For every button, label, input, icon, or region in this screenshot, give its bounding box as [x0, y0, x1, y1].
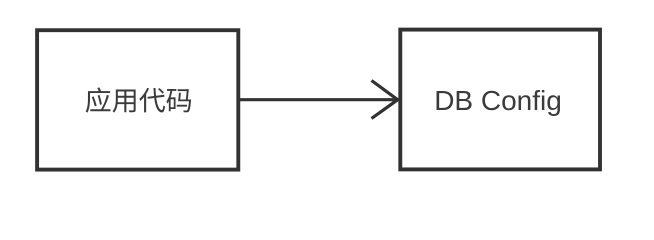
label: 应用代码: [86, 87, 191, 112]
wire: arrow shaft from 应用代码 to DB Config: [239, 98, 397, 101]
svg-text:DB Config: DB Config: [434, 85, 562, 116]
label text glyph 用: [113, 90, 136, 113]
label text glyph 码: [166, 89, 191, 112]
label text glyph 应: [86, 87, 111, 112]
box: DB Config: [400, 30, 600, 170]
arrowhead: [372, 81, 398, 119]
label text glyph 代: [139, 88, 165, 113]
box: 应用代码 (application code): [37, 30, 238, 169]
